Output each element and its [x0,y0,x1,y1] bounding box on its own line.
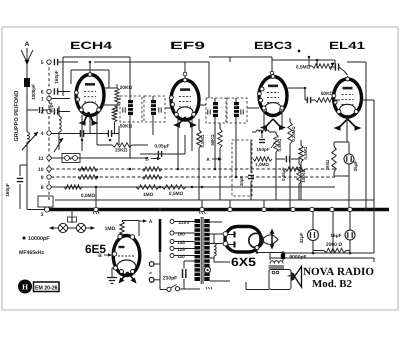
IF transformer 1 box a [120,96,142,122]
wire row 187 [51,186,335,188]
svg-text:50KΩ: 50KΩ [321,91,334,97]
svg-text:GRUPPO PE/FONO: GRUPPO PE/FONO [13,90,20,142]
node A arrow det [206,157,222,163]
label GRUPPO PE/FONO [13,90,20,142]
label EBC3 [254,40,292,52]
terminal 10 [38,167,51,173]
chassis mark [93,212,205,215]
svg-text:160pF: 160pF [5,183,10,196]
svg-text:50pF: 50pF [49,101,54,112]
dial lamp box F [62,154,80,163]
terminal 2 [41,109,51,115]
wire EL41 right [347,62,374,211]
svg-text:2: 2 [41,110,44,116]
svg-text:5: 5 [41,60,44,66]
svg-text:0,25MΩ: 0,25MΩ [291,126,296,142]
resistor 1,0M ohm det [253,157,272,167]
svg-text:0,5MΩ: 0,5MΩ [81,193,96,199]
label EF9 [170,40,205,52]
oscillator coil [59,106,61,150]
wire terminal 1 [51,98,70,100]
wire ECH4 inner top [71,70,109,88]
svg-text:0,05μF: 0,05μF [154,144,169,150]
svg-text:6E5: 6E5 [85,242,106,256]
svg-text:9000pF: 9000pF [289,255,306,261]
terminal 4 [41,131,51,137]
speaker [288,267,302,288]
svg-text:110: 110 [177,254,185,259]
wire top loop ECH4 [63,57,130,96]
filter choke [214,234,230,262]
svg-text:B: B [145,157,149,163]
chassis divider bar [159,219,162,252]
svg-text:A: A [206,157,210,163]
IFT2 coil a [208,98,218,123]
IFT2 coil b [234,98,243,123]
svg-text:25μF: 25μF [353,160,358,171]
detector coil [252,130,276,132]
output transformer [269,253,285,269]
bus chassis [47,208,389,212]
speaker box [269,270,291,290]
svg-text:1: 1 [41,97,44,103]
svg-text:6: 6 [41,90,44,96]
terminal dashed line [48,62,50,200]
tube ECH4 arrows [79,112,99,126]
IFT1 coil a [123,96,133,122]
svg-text:160pF: 160pF [256,147,269,152]
svg-text:NOVA RADIO: NOVA RADIO [303,266,374,278]
label 6E5 [85,242,106,256]
svg-text:A: A [149,219,153,225]
svg-text:11: 11 [38,156,44,162]
svg-text:50KΩ: 50KΩ [210,134,215,146]
resistor 0,5M ohm top [296,56,334,71]
svg-text:100KΩ: 100KΩ [301,169,306,183]
terminal 5 [41,60,51,66]
resistor 2000 ohm [313,242,350,253]
capacitor 160pF terminal 5 [54,59,78,84]
terminal 8 [41,185,51,191]
wire IFT1 out [130,108,171,158]
tube 6X5 [214,227,264,253]
svg-text:1MΩ: 1MΩ [143,192,154,198]
svg-text:145: 145 [177,240,185,245]
svg-text:1MΩ: 1MΩ [105,226,116,232]
svg-text:15KΩ: 15KΩ [115,148,128,154]
transformer secondary taps [210,222,230,281]
resistor 20K ohm [115,84,133,112]
tuning arrow antenna [22,132,38,150]
svg-text:4: 4 [41,131,44,137]
bus junction dots [158,208,375,211]
label 10000pF [22,236,50,242]
label NOVA RADIO [303,266,374,278]
terminal 1 [41,96,51,102]
wire ECH4 bottom drops [82,115,97,151]
wire top EBC3 run [209,57,272,62]
capacitor 32uF [299,211,319,253]
antenna coil [27,87,48,142]
svg-text:3: 3 [41,212,44,218]
wire HT right [373,211,375,253]
resistor 0,25M ohm EBC3 [288,118,296,209]
resistor row169 c [285,167,305,171]
tube 6X5 arrows [262,229,278,250]
svg-text:EM 20-26: EM 20-26 [35,285,58,292]
tube EBC3 diode pins [262,106,284,130]
svg-text:≈: ≈ [149,271,152,277]
svg-text:MF465кHz: MF465кHz [19,250,44,256]
node B arrow 6E5 [98,253,112,259]
IFT1 coil b [151,96,161,122]
resistor row177 b [142,175,162,179]
capacitor 50pF terminal 2 [49,101,71,114]
wire 6X5 out [256,250,284,254]
wire EBC3 to EL41 top [272,59,335,68]
resistor row169 a [78,167,98,171]
svg-text:0,5MΩ: 0,5MΩ [296,65,311,71]
wire antenna down [26,64,28,118]
svg-text:32μF: 32μF [299,232,304,243]
terminal 3 [41,207,50,218]
wire IFT2 out [198,105,259,177]
svg-text:10000pF: 10000pF [28,236,50,242]
wire row 158 [51,157,148,159]
svg-text:0,25μF: 0,25μF [281,167,286,181]
svg-text:0,5MΩ: 0,5MΩ [303,146,308,160]
svg-text:10: 10 [38,167,44,173]
tube EBC3 arrows [260,119,286,130]
logo badge [18,280,59,294]
tube EF9 arrows [173,117,197,128]
capacitor 0,05uF [140,135,185,157]
svg-text:H: H [22,282,28,291]
wire HT rail [284,252,374,255]
svg-text:ECH4: ECH4 [70,40,112,52]
wire ECH4 top cap [89,61,92,74]
svg-text:160: 160 [177,232,185,237]
label Mod. B2 [312,279,352,290]
terminal 11 [38,156,51,162]
wire speaker bottom [246,282,269,290]
transformer core [201,217,203,284]
resistor 1M ohm row187 [136,185,159,198]
mains plug [149,252,160,290]
tube EL41 arrows [334,119,362,131]
resistor 15K ohm [97,143,148,154]
tube EL41 [332,76,361,117]
label EL41 [298,40,366,52]
tube 6E5 arrows [119,272,137,284]
capacitor 0,25uF [276,156,299,181]
svg-text:8: 8 [41,185,44,191]
resistor 50K ohm ECH4 [112,106,132,134]
tube ECH4 [75,72,104,116]
label 6X5 [231,255,256,269]
label MF465kHz [19,250,44,256]
label ECH4 [70,40,112,52]
resistor 0,5M ohm row187 [64,185,95,199]
tube EF9 [170,77,199,120]
potentiometer 0,5M ohm [271,132,282,200]
tube 6E5 [112,234,140,275]
rail thin [55,199,374,201]
terminal 6 [41,89,51,95]
resistor 50K ohm EL41 [311,91,340,102]
antenna A [21,41,33,65]
resistor 1M ohm 6E5 [105,219,153,237]
tube EBC3 [258,74,287,116]
svg-text:0,5MΩ: 0,5MΩ [200,134,205,148]
wire ECH4 plate right [102,88,120,105]
junction dots middle [82,168,264,208]
IF transformer 1 box b [144,96,165,122]
capacitor 25uF [344,142,358,208]
tuning arrow osc [54,138,63,152]
wire terminal 4 [51,126,119,145]
capacitor top EL41 [332,63,348,75]
wire output top [270,258,374,262]
svg-text:A: A [25,41,30,48]
tap labels [177,220,190,259]
svg-text:6X5: 6X5 [231,255,256,269]
IF transformer 2 box b [227,98,247,123]
svg-text:2000 Ω: 2000 Ω [326,242,343,248]
svg-text:220V: 220V [179,220,191,225]
capacitor 1000pF [24,78,36,100]
mains switch [160,285,200,292]
resistor 50K ohm IF [210,123,222,200]
resistor cathode EL41 165 ohm [325,115,349,176]
resistor row177 a [78,175,98,179]
svg-text:0,5MΩ: 0,5MΩ [277,138,282,152]
transformer secondary [204,219,212,289]
svg-text:B: B [98,253,102,259]
transformer taps [170,220,195,258]
resistor row169 b [142,167,162,171]
pilot lamps [49,212,95,233]
svg-text:160pF: 160pF [54,70,59,83]
resistor 0,5M ohm EF9 screen [197,119,205,200]
capacitor 230pF [163,261,195,289]
svg-text:EBC3: EBC3 [254,40,292,52]
svg-text:125: 125 [177,247,185,252]
wire EBC3 top cap [270,57,274,78]
wire EF9 top cap [183,62,187,78]
transformer primary [195,219,201,281]
resistor 100K ohm [297,159,306,200]
wire row 169 dashed [51,168,335,170]
svg-text:Mod. B2: Mod. B2 [312,279,352,290]
svg-text:20pF: 20pF [239,176,244,186]
svg-text:20KΩ: 20KΩ [120,85,133,91]
node B arrow [145,157,161,163]
svg-text:16μF: 16μF [330,233,341,239]
dashed box 20pF [232,140,252,196]
capacitor 160pF det [256,131,269,152]
svg-text:0,5MΩ: 0,5MΩ [169,191,184,197]
IF transformer 2 box a [206,98,226,123]
svg-text:EL41: EL41 [329,40,365,52]
svg-text:1000pF: 1000pF [31,84,36,100]
ground 6E5 [107,268,117,284]
svg-text:50KΩ: 50KΩ [120,124,133,130]
terminal 9 [41,175,51,181]
svg-text:230pF: 230pF [163,276,177,282]
resistor 0,5M ohm row187 b [162,185,186,197]
svg-text:EF9: EF9 [170,40,205,52]
wire EF9 bottom drops [178,119,192,169]
capacitor grid EL41 [286,87,311,104]
svg-text:9: 9 [41,175,44,181]
capacitor 9000pF [281,251,307,260]
wire coil to ground rail [27,142,45,210]
wire row 177 dashed [51,176,335,178]
component box left rail [38,196,53,207]
wire top EF9 run [94,62,209,98]
resistor 0,5M ohm AF [299,140,308,200]
capacitor 16uF [330,211,355,253]
capacitor 20pF [239,140,254,200]
capacitor 160pF left [5,165,27,209]
capacitor terminal 6 [54,88,70,94]
bus junction circles [94,207,352,211]
svg-text:1,0MΩ: 1,0MΩ [255,162,269,167]
